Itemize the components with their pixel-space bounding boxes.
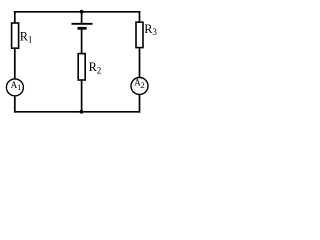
battery cell short plate (78, 27, 87, 30)
wire middle centre (81, 28, 83, 54)
wire right upper (139, 11, 141, 23)
node bottom junction (80, 110, 84, 114)
wire middle upper (81, 12, 83, 24)
wire left middle (14, 48, 16, 79)
node top junction (80, 10, 84, 14)
wire top (14, 11, 140, 13)
battery cell long plate (72, 23, 93, 25)
svg-text:R2: R2 (89, 60, 102, 75)
wire left lower (14, 96, 16, 113)
ammeter A1 (6, 79, 23, 96)
resistor R3 (136, 22, 143, 47)
wire left upper (14, 11, 16, 24)
wire middle lower (81, 80, 83, 112)
svg-text:R1: R1 (20, 30, 33, 45)
wire bottom (14, 111, 140, 113)
resistor R1 (12, 23, 19, 48)
wire right lower (139, 95, 141, 113)
svg-text:R3: R3 (144, 22, 157, 37)
resistor R2 (78, 54, 85, 80)
wire right middle (139, 48, 141, 78)
ammeter A2 (131, 78, 148, 95)
